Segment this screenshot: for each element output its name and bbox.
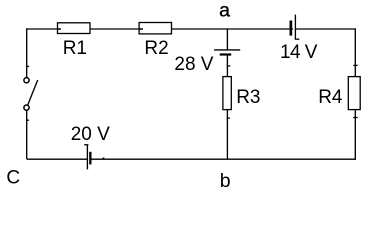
svg-text:R2: R2 [144,38,168,59]
svg-text:14 V: 14 V [280,42,318,63]
svg-text:R3: R3 [236,87,260,108]
svg-text:28 V: 28 V [174,54,213,75]
svg-text:C: C [6,168,20,189]
svg-text:20 V: 20 V [71,124,110,145]
svg-text:a: a [219,0,230,22]
svg-text:R4: R4 [318,87,343,108]
svg-text:b: b [220,170,231,192]
svg-text:R1: R1 [63,38,87,59]
